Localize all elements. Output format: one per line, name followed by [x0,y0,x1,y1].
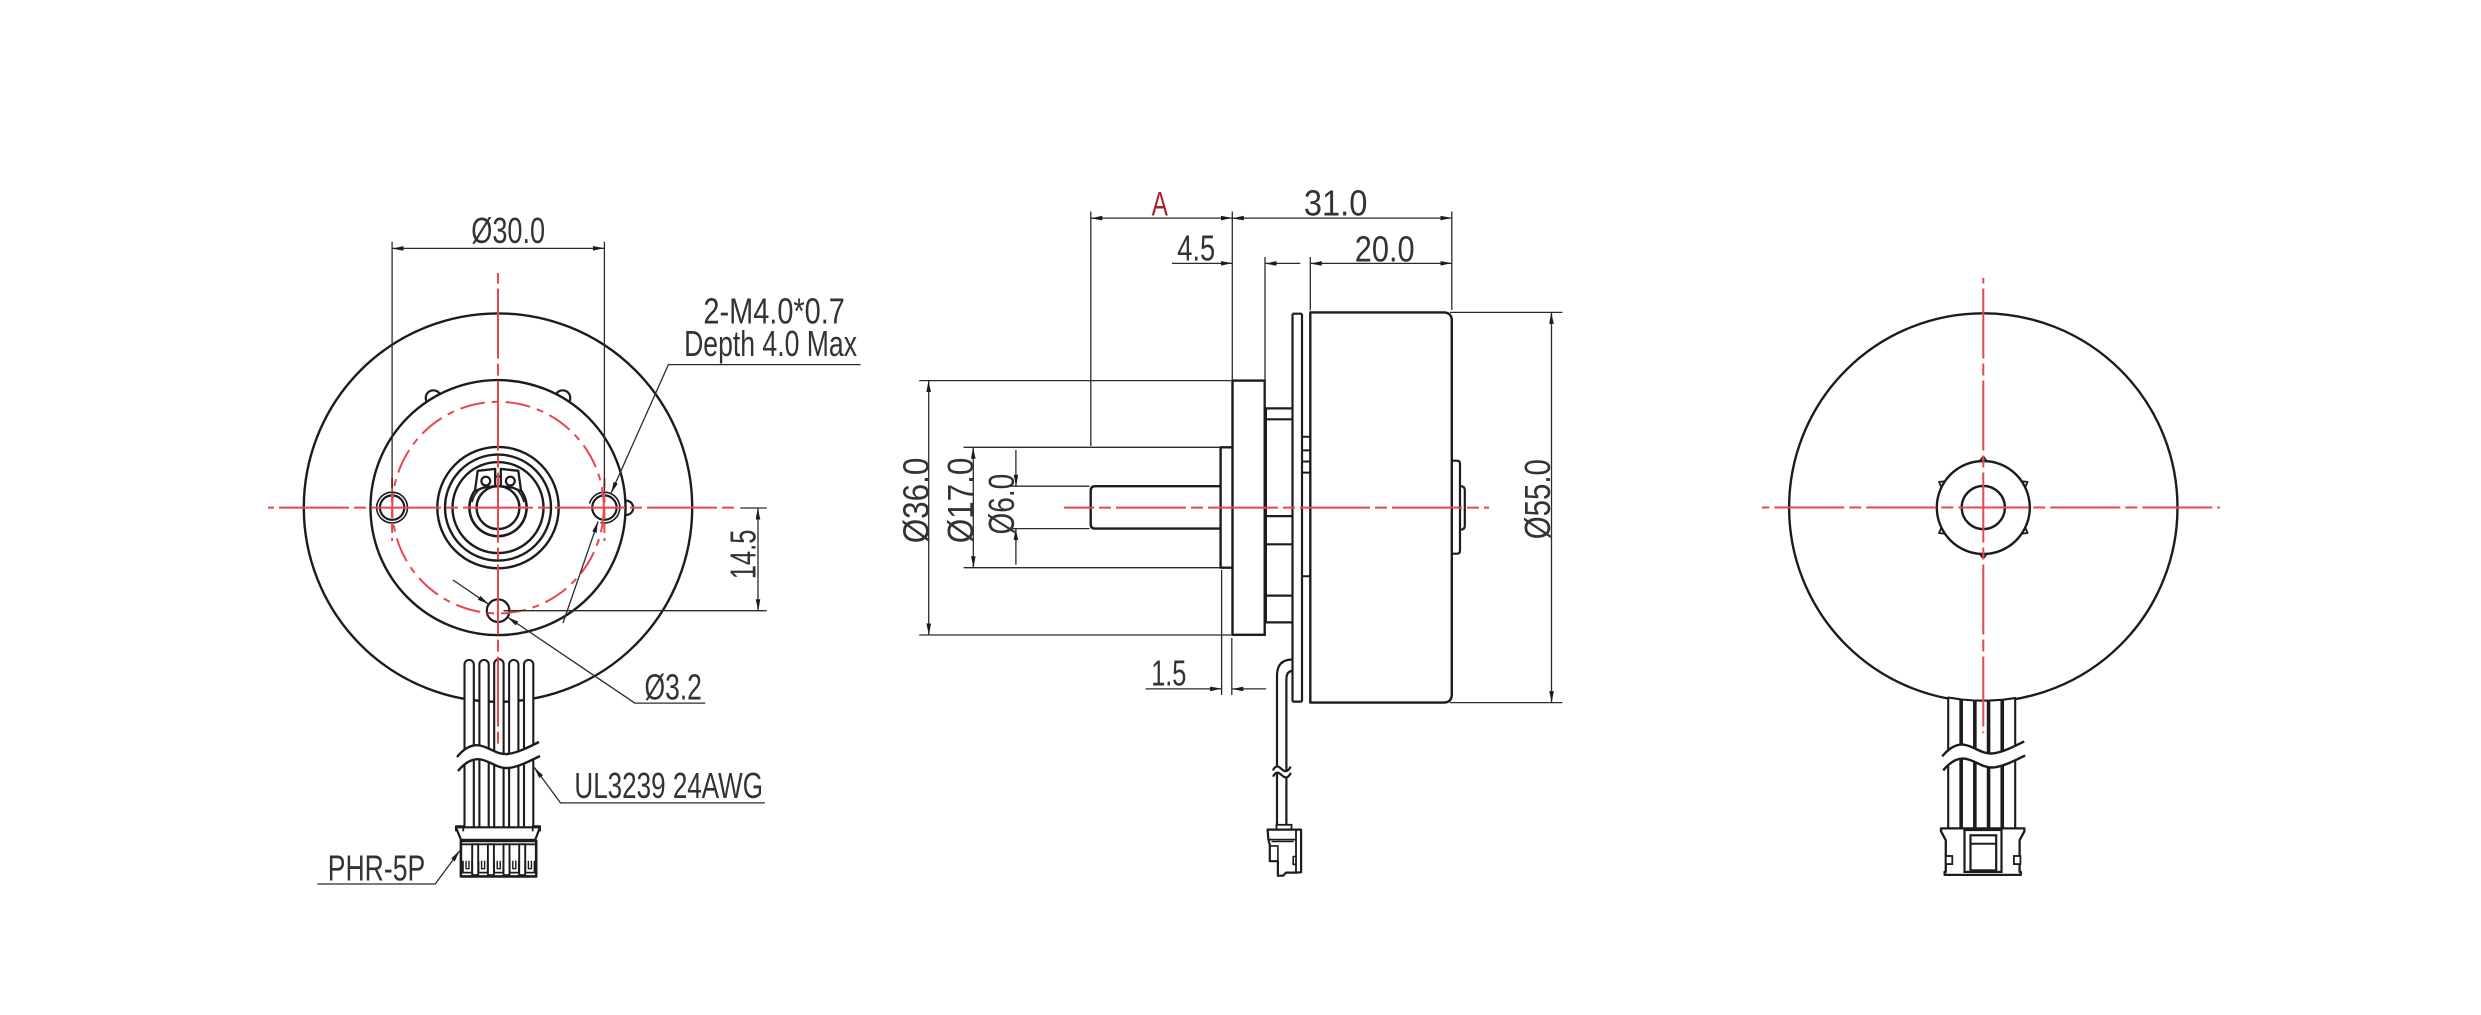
centerline (side view) [1064,507,1489,509]
rear connector latch outer [1965,830,2002,872]
connector flange corner tab left [456,826,463,831]
dim 31.0: line [1232,217,1452,219]
flange tab top-left [426,390,440,401]
PHR-5P connector (front view) flange [456,827,540,840]
connector flange corner tab right [533,826,540,831]
connector body (front) [461,841,536,877]
rear centerline horizontal [1762,507,2220,509]
leader M4 far-side arrow [563,521,598,623]
shaft (side) [1091,486,1221,528]
red centerline through right M4 hole [603,478,605,541]
leader Ø3.2 underline and arrow [508,617,706,703]
retaining ring gap bridge [495,476,501,478]
dim 1.5: arrows [1146,688,1222,690]
dim Ø6.0: extension lines [1008,485,1090,487]
shaft circle [477,486,520,529]
leader PHR-5P underline and arrow [317,851,460,884]
dim Ø30.0: dimension line [392,247,604,249]
wire ferrule (side) [1277,825,1292,830]
retaining ring left ear [475,469,495,491]
centerline vertical (front view) [497,273,499,745]
M4 tapped hole left: tap circle [380,495,404,519]
svg-text:Ø17.0: Ø17.0 [940,458,981,544]
dim 4.5: arrows [1172,262,1232,264]
dim Ø17.0: extension lines [964,446,1220,448]
svg-text:14.5: 14.5 [722,530,763,580]
rear connector notch left [1946,856,1953,864]
dim Ø36.0: line [928,381,930,635]
rear wires bundle (5) [1948,698,1960,829]
rear centerline vertical [1982,278,1984,733]
motor body outer circle (front view) [304,313,692,701]
svg-text:Ø30.0: Ø30.0 [471,210,545,251]
break symbol (side wire) [1273,766,1291,777]
connector side notch left [1270,846,1278,861]
connector side notch right [1293,857,1296,865]
M4 tapped hole right: thread arc [590,492,620,523]
lead wire (side view) bend and drop [1277,660,1293,827]
rear connector body outline [1941,828,2024,875]
svg-text:A: A [1152,185,1169,223]
bolt circle (red dashed) [392,402,604,614]
dim Ø6.0: arrows [1015,450,1017,486]
dim 1.5: extension lines [1221,570,1223,695]
svg-text:Ø3.2: Ø3.2 [645,666,702,707]
hub circle outer [437,447,558,568]
leader M4 underline and arrow [611,365,861,494]
rear break symbol [1942,741,2025,770]
rear shaft circle [1962,486,2005,529]
rear connector notch right [2014,856,2021,864]
dim Ø30.0: extension lines [391,242,393,491]
centerline horizontal (front view) [268,507,737,509]
PHR connector (side view) [1268,830,1302,876]
connector divider bars [472,844,478,875]
mounting flange circle [371,380,626,635]
connector inner top line [462,843,535,845]
shaft front hub boss (Ø17) [1221,447,1233,567]
flange tab top-right [556,390,570,401]
middle view: motor side section [895,182,1562,876]
leader UL3239 underline and arrow [534,767,765,803]
svg-text:4.5: 4.5 [1177,228,1215,269]
retaining ring inner sliver right [504,483,524,502]
leader Ø3.2 far-side arrow [453,580,489,604]
connector contacts (5) [463,861,472,873]
dim Ø36.0: extension lines [919,380,1231,382]
bottom hole (Ø3.2) [487,599,510,622]
svg-text:20.0: 20.0 [1355,229,1415,270]
rear view: motor back [1762,278,2220,875]
retaining ring right ear hole [506,477,515,486]
cable break symbol (front view) [457,742,540,771]
hub circle inner [453,462,544,553]
svg-text:Ø6.0: Ø6.0 [981,474,1022,535]
left view: motor front [268,210,861,888]
dim 20.0: line [1310,262,1452,264]
flange tab right (3 o'clock) [626,501,633,515]
svg-text:UL3239 24AWG: UL3239 24AWG [574,765,763,806]
hub circle middle [445,455,551,561]
retaining ring left ear hole [481,477,490,486]
dim Ø55.0: extension lines [1450,311,1562,313]
dim 4.5 extension line [1264,257,1266,408]
dim A: line [1091,217,1233,219]
rear bearing boss [1452,461,1460,554]
dim A and 31.0 extension lines [1090,212,1092,447]
M4 tapped hole right: tap circle [592,495,616,519]
dim Ø17.0: line [972,447,974,567]
mounting flange plate (Ø36) [1233,381,1265,635]
dim 14.5: dimension line [757,508,759,611]
dim Ø55.0: line [1551,312,1553,702]
lead wires bundle (front view, 5 wires) [465,660,474,828]
svg-text:1.5: 1.5 [1151,653,1186,694]
rear hub block [1265,408,1293,622]
dim 14.5: extension lines [740,507,767,509]
retaining ring inner sliver left [472,483,492,502]
motor body outer circle (rear view) [1789,313,2177,701]
rear hub tabs (6) [2022,481,2028,487]
retaining ring right ear [501,469,521,491]
rear shaft end cap [1460,486,1465,529]
svg-text:Ø36.0: Ø36.0 [895,458,936,544]
retaining ring outer arc [469,482,526,536]
motor body (side view, Ø55 x 20) [1310,312,1452,702]
svg-text:Ø55.0: Ø55.0 [1517,459,1558,539]
rear hub block left edge [1265,408,1267,622]
terminal ticks between plate and body [1302,437,1310,577]
M4 tapped hole left: thread circle [377,492,408,523]
rear connector latch inner [1971,835,1997,870]
svg-text:31.0: 31.0 [1304,182,1368,223]
red centerline through left M4 hole [391,478,393,541]
rear hub circle [1937,461,2030,554]
pcb / bracket plate [1293,314,1303,702]
svg-text:PHR-5P: PHR-5P [328,847,425,888]
svg-text:Depth 4.0 Max: Depth 4.0 Max [684,323,857,364]
